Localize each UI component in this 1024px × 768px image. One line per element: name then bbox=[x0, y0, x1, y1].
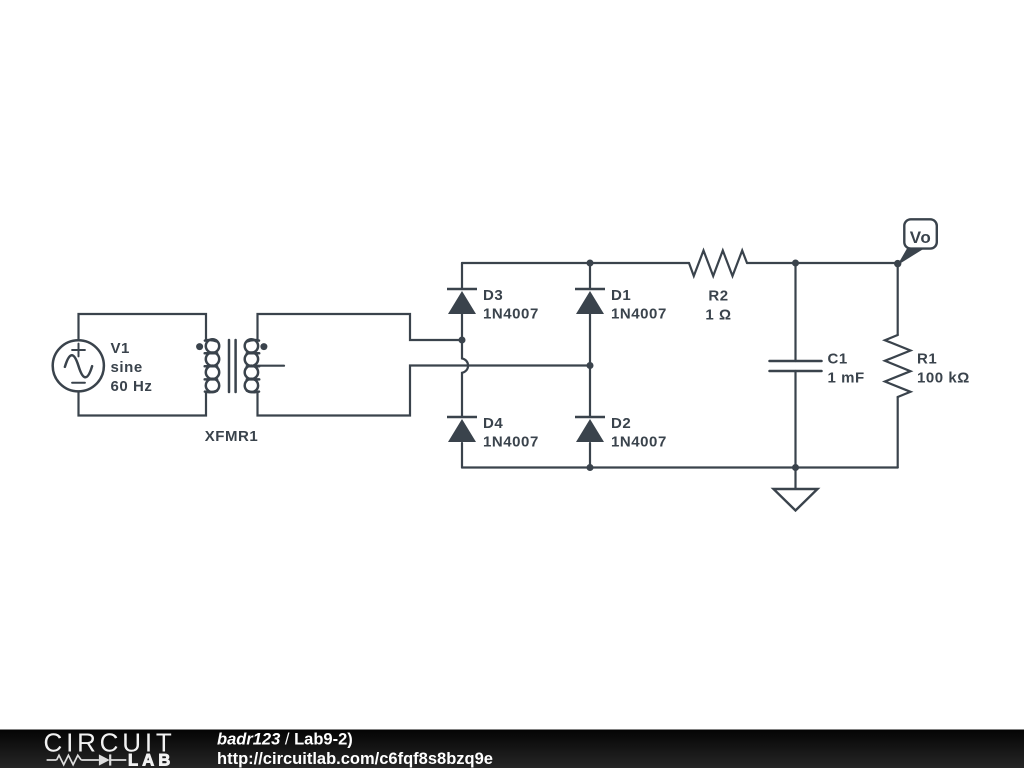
svg-text:Vo: Vo bbox=[910, 228, 932, 247]
node Vo dot bbox=[894, 260, 901, 267]
svg-text:1N4007: 1N4007 bbox=[611, 433, 667, 450]
transformer secondary polarity dot bbox=[260, 343, 267, 350]
junction node A (secondary top to bridge left) bbox=[459, 337, 466, 344]
wire from V1 plus terminal up and right to XFMR1 primary top bbox=[79, 314, 207, 340]
svg-text:100 kΩ: 100 kΩ bbox=[917, 370, 970, 387]
svg-text:1N4007: 1N4007 bbox=[611, 305, 667, 322]
junction bottom rail at ground bbox=[792, 464, 799, 471]
wire R1 bottom to bottom rail bbox=[897, 397, 899, 468]
wire from secondary top terminal to bridge left branch bbox=[258, 314, 463, 340]
svg-text:60 Hz: 60 Hz bbox=[111, 378, 153, 395]
wire D2 anode to bottom rail bbox=[589, 443, 591, 468]
resistor R1 zigzag body bbox=[885, 335, 911, 397]
transformer XFMR1 center tap stub bbox=[258, 365, 285, 367]
ground stem bbox=[794, 468, 796, 490]
svg-text:http://circuitlab.com/c6fqf8s8: http://circuitlab.com/c6fqf8s8bzq9e bbox=[217, 750, 493, 768]
voltage source V1 sine symbol bbox=[65, 355, 92, 377]
wire D4 anode to bottom rail bbox=[461, 443, 463, 468]
wire D3 anode to node A bbox=[461, 314, 463, 340]
svg-text:sine: sine bbox=[111, 359, 143, 376]
junction top rail at C1 bbox=[792, 260, 799, 267]
junction bottom rail at D2 bbox=[587, 464, 594, 471]
svg-text:V1: V1 bbox=[111, 340, 130, 357]
voltage source V1 circle bbox=[53, 340, 104, 391]
transformer primary polarity dot bbox=[196, 343, 203, 350]
wire top rail to D1 cathode bbox=[589, 263, 591, 289]
wire bottom rail bbox=[462, 466, 898, 468]
svg-text:R2: R2 bbox=[708, 288, 728, 305]
footer bar bbox=[0, 730, 1024, 768]
svg-text:D4: D4 bbox=[483, 415, 503, 432]
diode D2 bbox=[575, 417, 605, 442]
wire from secondary bottom terminal to bridge right branch bbox=[258, 366, 591, 416]
svg-text:1N4007: 1N4007 bbox=[483, 305, 539, 322]
svg-text:R1: R1 bbox=[917, 351, 937, 368]
junction node B (secondary bottom to bridge right) bbox=[587, 362, 594, 369]
voltage source V1 plus sign bbox=[72, 344, 85, 357]
logo doodle wire resistor diode bbox=[47, 754, 127, 765]
svg-text:LAB: LAB bbox=[128, 752, 175, 768]
svg-text:D1: D1 bbox=[611, 287, 631, 304]
svg-text:XFMR1: XFMR1 bbox=[205, 428, 259, 445]
wire D1 anode through node B to D2 cathode bbox=[589, 314, 591, 417]
wire C1 bottom lead bbox=[794, 371, 796, 468]
ground triangle bbox=[774, 489, 818, 511]
voltage source V1 minus sign bbox=[72, 382, 85, 384]
node Vo flag box bbox=[904, 219, 937, 248]
wire C1 top lead bbox=[794, 263, 796, 361]
svg-text:C1: C1 bbox=[828, 351, 848, 368]
node Vo flag pointer bbox=[897, 247, 923, 265]
svg-text:D2: D2 bbox=[611, 415, 631, 432]
resistor R2 zigzag body bbox=[689, 251, 747, 277]
transformer XFMR1 primary winding bbox=[205, 339, 220, 392]
svg-text:1N4007: 1N4007 bbox=[483, 433, 539, 450]
transformer XFMR1 core bbox=[229, 340, 236, 392]
junction top rail at D1 bbox=[587, 260, 594, 267]
wire node Vo down to R1 top bbox=[897, 263, 899, 335]
wire node A down with hop over crossing wire to D4 cathode bbox=[462, 340, 468, 417]
svg-text:1 mF: 1 mF bbox=[828, 370, 865, 387]
wire top rail to D3 cathode bbox=[461, 263, 463, 289]
capacitor C1 plates bbox=[770, 361, 822, 371]
diode D4 bbox=[447, 417, 477, 442]
svg-text:D3: D3 bbox=[483, 287, 503, 304]
wire top rail from bridge to R2 bbox=[462, 262, 689, 264]
wire top rail from R2 to node Vo bbox=[747, 262, 898, 264]
transformer XFMR1 secondary winding bbox=[245, 339, 260, 392]
diode D3 bbox=[447, 289, 477, 314]
wire from V1 minus terminal down and right to XFMR1 primary bottom bbox=[79, 392, 207, 416]
diode D1 bbox=[575, 289, 605, 314]
svg-text:1 Ω: 1 Ω bbox=[705, 307, 731, 324]
svg-text:badr123 / Lab9-2): badr123 / Lab9-2) bbox=[217, 731, 353, 749]
